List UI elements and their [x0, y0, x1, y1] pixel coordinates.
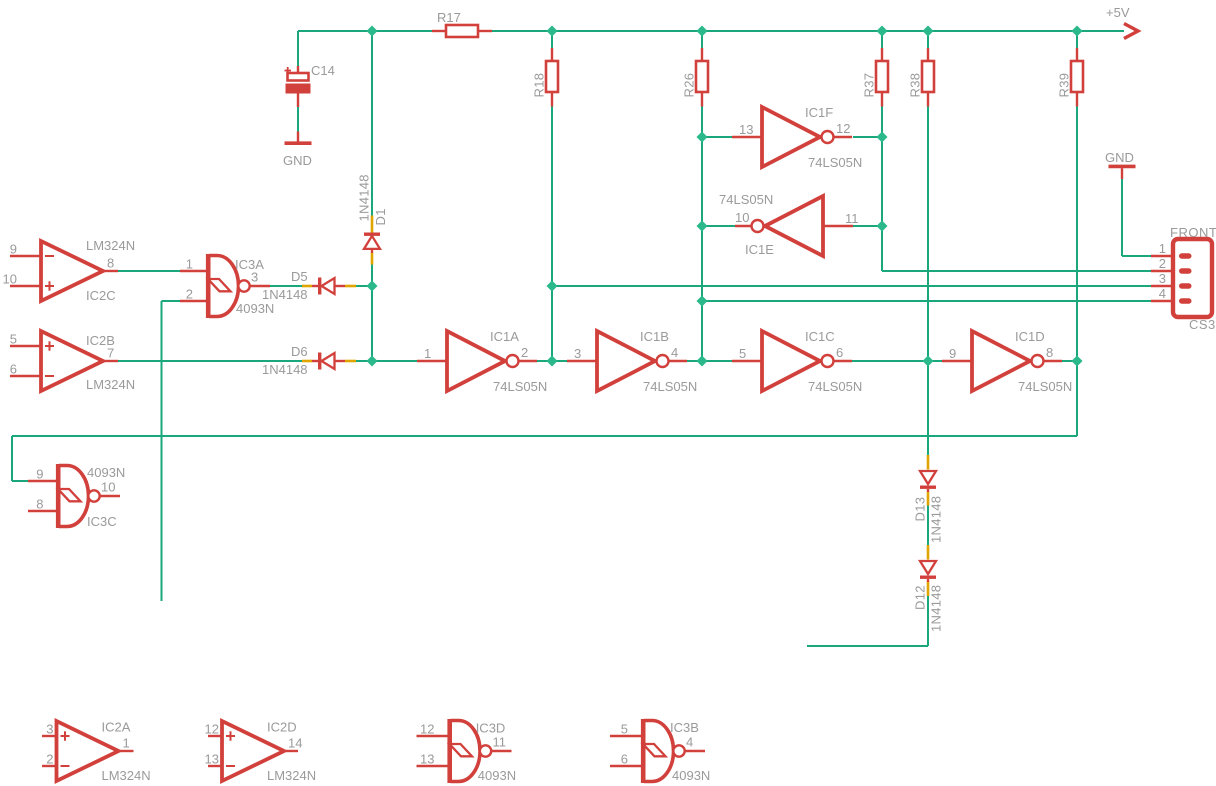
svg-text:IC3B: IC3B	[670, 720, 699, 735]
svg-text:D13: D13	[913, 497, 928, 522]
svg-text:10: 10	[735, 210, 749, 225]
svg-text:74LS05N: 74LS05N	[808, 155, 862, 170]
svg-text:R18: R18	[532, 73, 547, 98]
svg-text:13: 13	[739, 122, 753, 137]
svg-text:9: 9	[10, 241, 17, 256]
svg-text:74LS05N: 74LS05N	[493, 379, 547, 394]
svg-text:IC2A: IC2A	[102, 720, 131, 735]
svg-text:3: 3	[1159, 271, 1166, 286]
svg-text:74LS05N: 74LS05N	[719, 192, 773, 207]
svg-text:1N4148: 1N4148	[929, 496, 944, 543]
svg-text:IC3D: IC3D	[476, 721, 506, 736]
svg-text:R17: R17	[437, 10, 461, 25]
svg-text:IC2D: IC2D	[267, 720, 297, 735]
svg-text:11: 11	[845, 211, 859, 226]
svg-text:3: 3	[46, 721, 53, 736]
svg-text:12: 12	[420, 722, 434, 737]
svg-text:4: 4	[686, 735, 693, 750]
svg-text:R26: R26	[682, 73, 697, 98]
svg-text:5: 5	[621, 722, 628, 737]
svg-text:74LS05N: 74LS05N	[808, 379, 862, 394]
svg-text:1N4148: 1N4148	[929, 585, 944, 632]
svg-text:4093N: 4093N	[672, 768, 710, 783]
svg-text:2: 2	[186, 287, 193, 302]
svg-text:D12: D12	[913, 585, 928, 610]
svg-text:IC3A: IC3A	[235, 257, 264, 272]
svg-text:11: 11	[493, 735, 507, 750]
svg-text:1: 1	[1159, 241, 1166, 256]
svg-text:14: 14	[288, 736, 302, 751]
svg-text:9: 9	[949, 346, 956, 361]
svg-text:D6: D6	[291, 344, 308, 359]
svg-text:IC1F: IC1F	[805, 105, 833, 120]
svg-text:LM324N: LM324N	[102, 768, 151, 783]
svg-text:6: 6	[836, 345, 843, 360]
svg-text:IC1D: IC1D	[1015, 329, 1045, 344]
svg-text:C14: C14	[311, 63, 335, 78]
svg-text:8: 8	[1046, 345, 1053, 360]
svg-text:13: 13	[205, 751, 219, 766]
svg-text:IC3C: IC3C	[87, 514, 117, 529]
svg-text:4093N: 4093N	[236, 301, 274, 316]
svg-text:IC2B: IC2B	[86, 333, 115, 348]
svg-text:8: 8	[107, 256, 114, 271]
svg-text:5: 5	[739, 346, 746, 361]
svg-text:1: 1	[123, 736, 130, 751]
svg-text:LM324N: LM324N	[267, 768, 316, 783]
svg-text:1N4148: 1N4148	[262, 362, 308, 377]
svg-text:1N4148: 1N4148	[262, 287, 308, 302]
svg-text:12: 12	[205, 721, 219, 736]
svg-text:D1: D1	[373, 208, 388, 225]
svg-text:6: 6	[621, 752, 628, 767]
svg-text:R39: R39	[1057, 73, 1072, 98]
svg-text:10: 10	[101, 480, 115, 495]
svg-text:1N4148: 1N4148	[357, 174, 372, 221]
svg-text:1: 1	[424, 346, 431, 361]
svg-text:LM324N: LM324N	[86, 377, 135, 392]
svg-text:2: 2	[521, 345, 528, 360]
svg-text:4: 4	[1159, 286, 1166, 301]
svg-text:2: 2	[1159, 256, 1166, 271]
svg-text:GND: GND	[283, 153, 312, 168]
svg-text:13: 13	[420, 752, 434, 767]
svg-text:6: 6	[10, 361, 17, 376]
svg-text:CS3: CS3	[1189, 317, 1216, 332]
svg-text:9: 9	[36, 467, 43, 482]
svg-text:GND: GND	[1105, 150, 1134, 165]
svg-text:IC1C: IC1C	[805, 329, 835, 344]
svg-text:FRONT: FRONT	[1170, 225, 1216, 240]
svg-text:4: 4	[671, 345, 678, 360]
svg-text:+5V: +5V	[1106, 5, 1130, 20]
svg-text:IC1E: IC1E	[745, 242, 774, 257]
svg-text:3: 3	[574, 346, 581, 361]
svg-text:IC1B: IC1B	[640, 329, 669, 344]
svg-text:2: 2	[46, 751, 53, 766]
svg-text:1: 1	[186, 257, 193, 272]
svg-text:IC2C: IC2C	[86, 288, 116, 303]
svg-text:D5: D5	[291, 269, 308, 284]
svg-text:R37: R37	[862, 73, 877, 98]
svg-text:4093N: 4093N	[87, 465, 125, 480]
svg-text:10: 10	[3, 271, 17, 286]
svg-text:5: 5	[10, 331, 17, 346]
svg-text:74LS05N: 74LS05N	[1018, 379, 1072, 394]
svg-text:74LS05N: 74LS05N	[643, 379, 697, 394]
svg-text:4093N: 4093N	[478, 768, 516, 783]
svg-text:IC1A: IC1A	[490, 329, 519, 344]
svg-text:8: 8	[36, 497, 43, 512]
svg-text:LM324N: LM324N	[86, 238, 135, 253]
svg-text:12: 12	[836, 121, 850, 136]
svg-text:R38: R38	[908, 73, 923, 98]
